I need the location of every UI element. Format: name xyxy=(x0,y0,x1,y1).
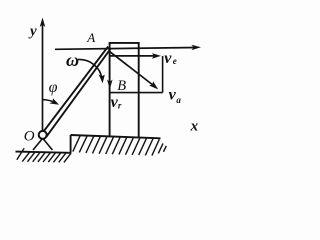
pivot circle at O xyxy=(39,131,47,139)
phi angle arc arrow xyxy=(42,100,56,104)
svg-text:y: y xyxy=(28,23,37,39)
parallelogram bottom edge xyxy=(110,92,163,94)
vertical column xyxy=(109,43,140,138)
parallelogram right edge xyxy=(162,56,164,93)
svg-text:A: A xyxy=(86,30,95,45)
omega arc arrow xyxy=(78,59,102,79)
ground line left xyxy=(16,152,71,153)
svg-text:v: v xyxy=(169,87,177,104)
svg-text:ω: ω xyxy=(66,50,79,70)
pin support triangle xyxy=(33,138,52,150)
y-axis xyxy=(40,18,46,135)
platform hatching xyxy=(73,135,167,155)
svg-text:r: r xyxy=(118,100,122,110)
rod OA xyxy=(41,47,110,136)
svg-text:x: x xyxy=(190,118,199,134)
platform top line xyxy=(71,135,161,138)
ground hatching left xyxy=(17,148,71,162)
vector ve (horizontal) xyxy=(110,53,161,59)
horizontal guide line with arrow (top) xyxy=(55,45,201,50)
step vertical xyxy=(70,135,72,153)
svg-text:φ: φ xyxy=(49,79,58,96)
vector vr arrowhead (relative velocity, along column edge) xyxy=(107,80,113,89)
svg-text:B: B xyxy=(117,78,126,94)
svg-text:v: v xyxy=(164,50,172,67)
svg-text:O: O xyxy=(24,129,35,145)
svg-text:e: e xyxy=(173,56,177,66)
svg-text:a: a xyxy=(176,95,181,105)
vector va (diagonal, absolute velocity) xyxy=(110,52,158,90)
